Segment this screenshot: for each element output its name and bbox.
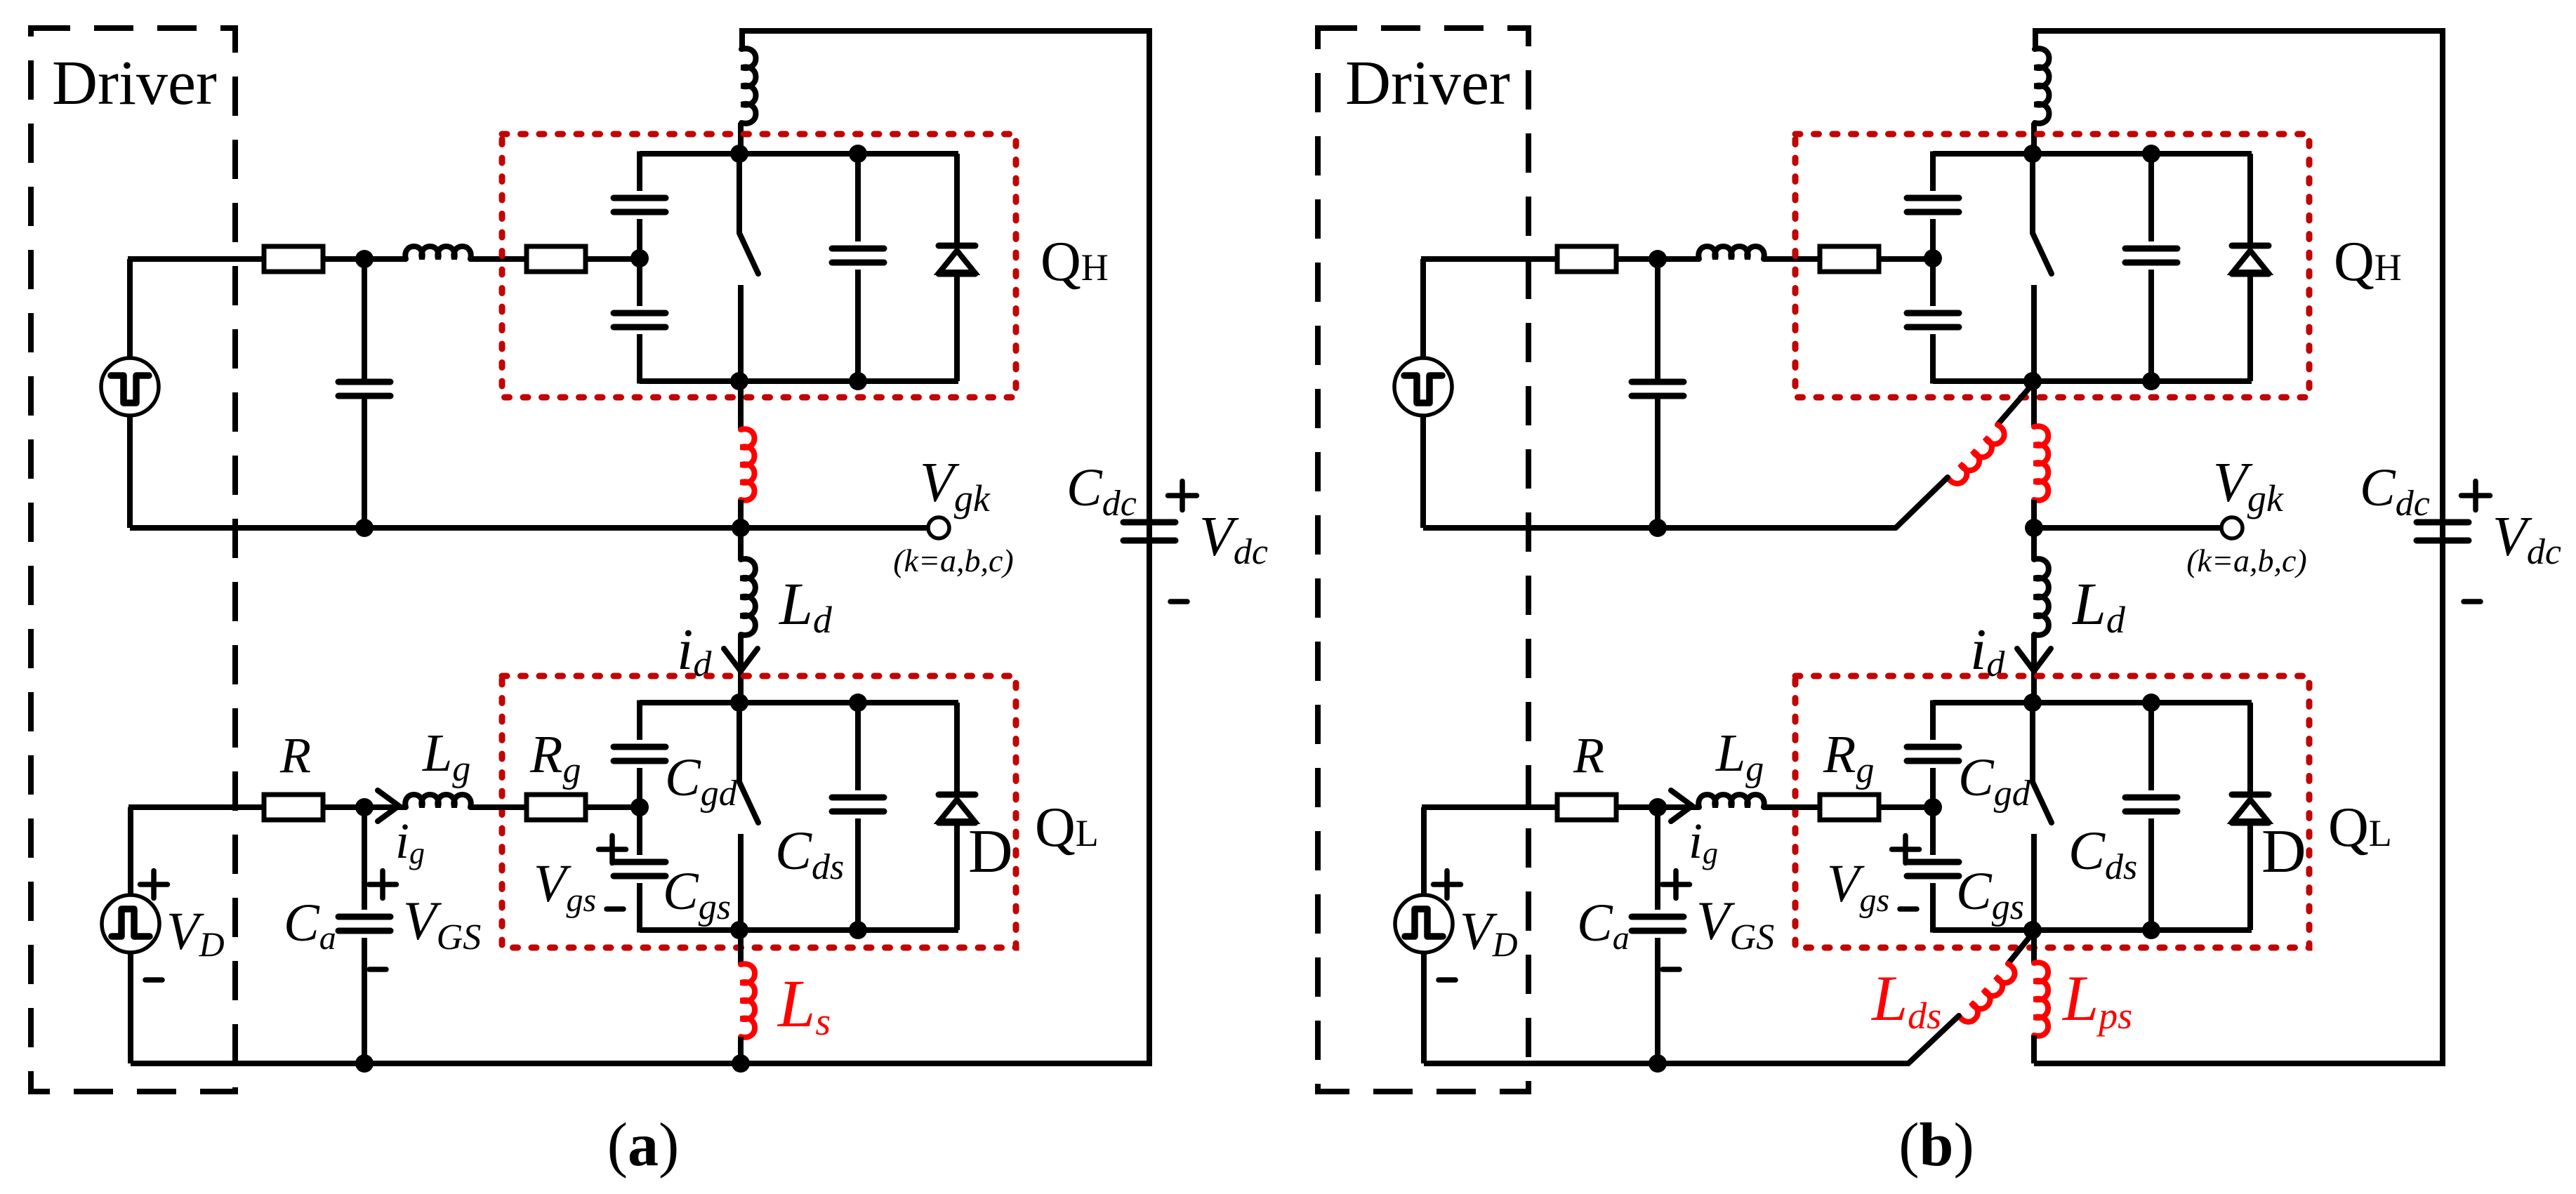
svg-text:(b): (b) (1898, 1111, 1974, 1179)
svg-text:(a): (a) (607, 1111, 680, 1179)
svg-text:(k=a,b,c): (k=a,b,c) (2186, 543, 2307, 578)
svg-text:R: R (1573, 727, 1604, 783)
svg-text:D: D (968, 818, 1013, 886)
svg-text:Driver: Driver (1345, 48, 1510, 118)
svg-text:Driver: Driver (52, 48, 217, 118)
svg-text:(k=a,b,c): (k=a,b,c) (893, 543, 1014, 578)
svg-text:R: R (279, 727, 311, 783)
svg-text:D: D (2261, 818, 2306, 886)
